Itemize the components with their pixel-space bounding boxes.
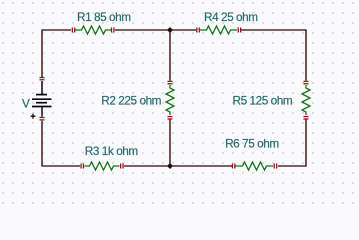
svg-text:R5 125 ohm: R5 125 ohm [233, 93, 293, 107]
resistor R5 125 ohm (vertical, right branch) [302, 81, 310, 120]
wire: bottom rail between R6 and R3 through node C [124, 165, 232, 167]
R6 pin 1 marker [232, 164, 233, 169]
battery top lead [41, 81, 43, 94]
resistor R4 25 ohm (horizontal, top-right branch) [196, 26, 241, 34]
svg-text:R2 225 ohm: R2 225 ohm [101, 93, 161, 107]
R1 pin 1 marker [72, 28, 73, 33]
svg-text:R4 25 ohm: R4 25 ohm [204, 10, 258, 24]
wire: R3 to bottom-left corner (42,166) up to battery + terminal [42, 121, 80, 166]
R3 pin 2 marker [120, 164, 121, 169]
svg-text:R6 75 ohm: R6 75 ohm [225, 137, 279, 151]
battery V (two-cell symbol, left rail) [31, 77, 52, 121]
R2 pin 1 marker [168, 81, 173, 82]
R2 pin 2 marker [168, 116, 173, 117]
R5 pin 1 marker [304, 81, 309, 82]
wire: node B down to R2 [169, 30, 171, 81]
wire: top rail between R1 and R4 through node B [115, 29, 196, 31]
resistor R6 75 ohm (horizontal, bottom-right branch) [232, 162, 277, 170]
node C junction dot (170,166) [167, 163, 173, 169]
battery positive pin marker [40, 117, 45, 118]
node B junction dot (170,30) [167, 27, 173, 33]
battery plus sign [31, 114, 36, 119]
R1 pin 2 marker [111, 28, 112, 33]
resistor R1 85 ohm (horizontal, top-left branch) [72, 26, 115, 34]
battery bottom lead [41, 107, 43, 116]
wire: top-right corner (306,30) down to R5 [241, 30, 306, 81]
resistor R3 1k ohm (horizontal, bottom-left branch) [80, 162, 123, 170]
R4 pin 1 marker [196, 28, 197, 33]
svg-text:R1 85 ohm: R1 85 ohm [77, 10, 131, 24]
R5 pin 2 marker [304, 116, 309, 117]
battery plate long (positive) [32, 106, 52, 108]
R6 pin 2 marker [274, 164, 275, 169]
wire: R2 down to node C [169, 120, 171, 167]
R4 pin 2 marker [238, 28, 239, 33]
svg-text:V: V [22, 96, 30, 110]
battery plate long (positive) [32, 98, 52, 100]
R3 pin 1 marker [80, 164, 81, 169]
resistor R2 225 ohm (vertical, middle branch) [166, 81, 174, 120]
battery plate short (negative) [36, 94, 47, 96]
wire: top-left node A to battery (left rail upper), corner at (42,30) [42, 30, 71, 77]
svg-text:R3 1k ohm: R3 1k ohm [85, 144, 139, 158]
battery negative pin marker [40, 77, 45, 78]
wire: R5 down to bottom-right corner (306,166) then to R6 [278, 120, 306, 167]
battery plate short (negative) [36, 102, 47, 104]
